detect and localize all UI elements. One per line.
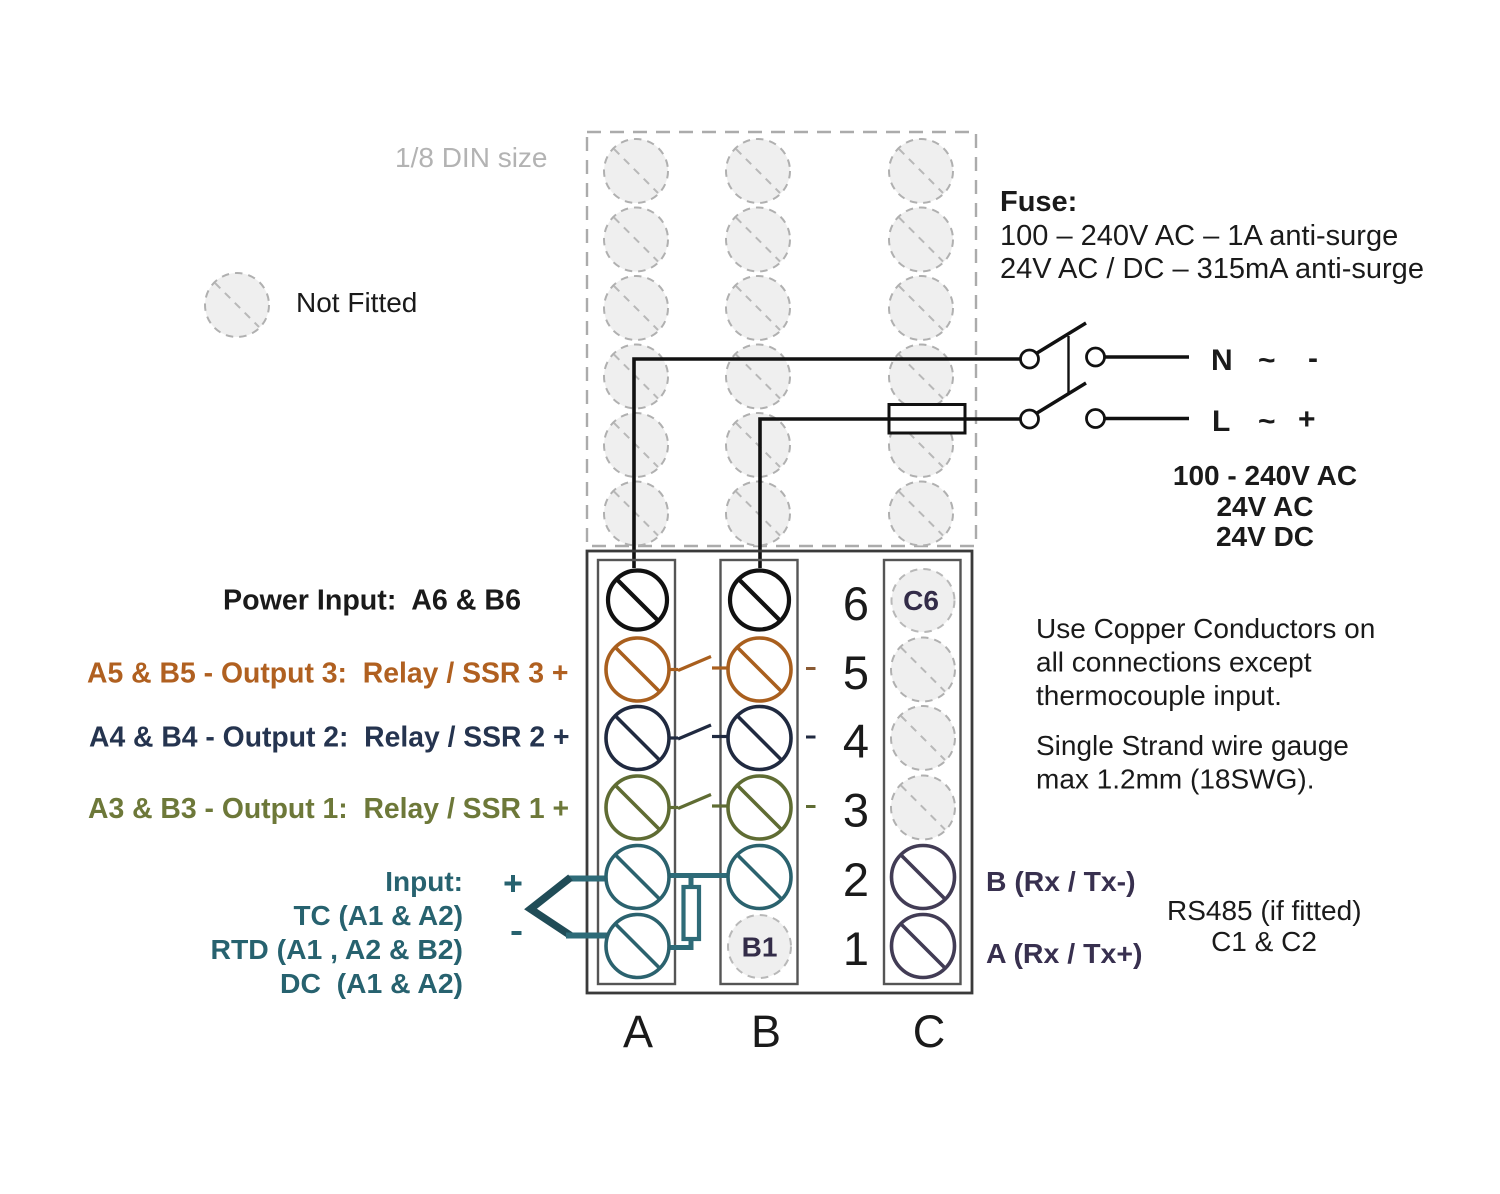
not fitted terminal col B r6 [726, 482, 790, 546]
svg-text:~: ~ [1258, 344, 1276, 377]
not fitted terminal col C r1 [889, 139, 953, 203]
not fitted terminal col B r2 [726, 208, 790, 272]
svg-text:100 – 240V AC – 1A anti-surge: 100 – 240V AC – 1A anti-surge [1000, 220, 1398, 252]
terminal A4 [606, 707, 669, 770]
terminal C3 not fitted [891, 776, 955, 840]
not fitted terminal col B r1 [726, 139, 790, 203]
fuse F1 body [889, 405, 965, 434]
svg-text:24V AC / DC – 315mA anti-surge: 24V AC / DC – 315mA anti-surge [1000, 253, 1424, 285]
terminal B1 not fitted [728, 915, 791, 978]
svg-text:A: A [623, 1006, 653, 1057]
terminal C5 not fitted [891, 638, 955, 702]
svg-text:1: 1 [843, 922, 869, 975]
svg-text:+: + [1298, 403, 1316, 436]
svg-text:max 1.2mm (18SWG).: max 1.2mm (18SWG). [1036, 764, 1314, 795]
RTD jumper down stub [689, 873, 694, 887]
column A strip [598, 560, 675, 984]
svg-text:C1 & C2: C1 & C2 [1211, 926, 1317, 957]
terminal B4 [728, 707, 791, 770]
svg-text:B1: B1 [742, 932, 778, 963]
svg-text:B: B [751, 1006, 781, 1057]
contact link output 1 [670, 795, 729, 809]
switch pole N right contact [1087, 348, 1105, 366]
svg-text:TC (A1 & A2): TC (A1 & A2) [294, 900, 464, 931]
not fitted terminal col A r3 [604, 276, 668, 340]
input minus polarity sign [512, 931, 522, 935]
not fitted terminal col A r2 [604, 208, 668, 272]
not fitted legend circle [205, 273, 269, 337]
thermocouple symbol [531, 878, 609, 936]
not fitted terminal col C r3 [889, 276, 953, 340]
svg-text:RTD (A1 , A2 & B2): RTD (A1 , A2 & B2) [211, 934, 464, 965]
contact link output 2 [670, 725, 729, 739]
terminal C1 [892, 915, 955, 978]
not fitted terminal col A r5 [604, 413, 668, 477]
input plus polarity sign [505, 875, 522, 892]
svg-text:Power Input: A6 & B6: Power Input: A6 & B6 [223, 585, 521, 617]
svg-text:100 - 240V AC: 100 - 240V AC [1173, 460, 1357, 491]
terminal block outline [587, 551, 972, 993]
terminal C4 not fitted [891, 706, 955, 770]
not fitted terminal col A r1 [604, 139, 668, 203]
terminal A1 [606, 915, 669, 978]
svg-text:RS485 (if fitted): RS485 (if fitted) [1167, 895, 1362, 926]
svg-text:Single Strand wire gauge: Single Strand wire gauge [1036, 730, 1349, 761]
terminal C2 [892, 846, 955, 909]
not fitted terminal col B r5 [726, 413, 790, 477]
svg-text:-: - [1308, 342, 1318, 375]
svg-text:C: C [913, 1006, 946, 1057]
terminal A3 [606, 776, 669, 839]
switch pole L right contact [1087, 410, 1105, 428]
svg-text:6: 6 [843, 577, 869, 630]
svg-text:A4 & B4 - Output 2: Relay / S: A4 & B4 - Output 2: Relay / SSR 2 + [89, 722, 570, 754]
svg-text:Use Copper Conductors on: Use Copper Conductors on [1036, 613, 1375, 644]
svg-text:L: L [1212, 405, 1230, 438]
DIN outline (dashed case) [587, 132, 976, 546]
minus mark row 5 [806, 667, 816, 670]
wire L tail [1105, 417, 1190, 420]
switch mechanical link [1067, 336, 1069, 394]
terminal B6 [730, 571, 789, 630]
svg-text:Input:: Input: [385, 866, 463, 897]
svg-text:N: N [1211, 344, 1233, 377]
terminal A2 [606, 846, 669, 909]
svg-text:B (Rx / Tx-): B (Rx / Tx-) [986, 866, 1136, 897]
RTD lower stub [689, 939, 694, 948]
svg-text:A3 & B3 - Output 1: Relay / S: A3 & B3 - Output 1: Relay / SSR 1 + [88, 793, 569, 825]
svg-text:4: 4 [843, 715, 869, 768]
svg-text:all connections except: all connections except [1036, 647, 1312, 678]
switch pole N left contact [1021, 350, 1039, 368]
svg-text:~: ~ [1258, 405, 1276, 438]
svg-text:A (Rx / Tx+): A (Rx / Tx+) [986, 938, 1143, 969]
terminal B2 [728, 846, 791, 909]
minus mark row 3 [806, 805, 816, 808]
terminal A6 [608, 571, 667, 630]
not fitted terminal col C r4 [889, 345, 953, 409]
terminal C6 not fitted [892, 569, 955, 632]
column C strip [884, 560, 961, 984]
switch pole L left contact [1021, 410, 1039, 428]
svg-text:A5 & B5 - Output 3: Relay / S: A5 & B5 - Output 3: Relay / SSR 3 + [87, 658, 569, 690]
RTD resistor [684, 887, 700, 939]
svg-text:Fuse:: Fuse: [1000, 186, 1077, 218]
terminal B5 [728, 638, 791, 701]
contact link output 3 [670, 657, 729, 671]
not fitted terminal col A r6 [604, 482, 668, 546]
terminal B3 [728, 776, 791, 839]
not fitted terminal col B r3 [726, 276, 790, 340]
not fitted terminal col C r5 [889, 413, 953, 477]
wire N tail [1105, 355, 1190, 358]
switch pole L lever [1037, 383, 1086, 413]
svg-text:5: 5 [843, 646, 869, 699]
switch pole N lever [1037, 323, 1086, 353]
svg-text:C6: C6 [903, 585, 939, 616]
input wire row 2 [670, 873, 728, 878]
not fitted terminal col A r4 [604, 345, 668, 409]
svg-text:1/8 DIN size: 1/8 DIN size [395, 142, 548, 173]
wire gauge note [1036, 730, 1349, 795]
svg-text:Not Fitted: Not Fitted [296, 287, 417, 318]
svg-text:thermocouple input.: thermocouple input. [1036, 680, 1282, 711]
wire N from A6 to switch [634, 359, 1020, 568]
svg-text:DC (A1 & A2): DC (A1 & A2) [280, 968, 463, 999]
not fitted terminal col C r2 [889, 208, 953, 272]
column B strip [721, 560, 798, 984]
not fitted terminal col C r6 [889, 482, 953, 546]
svg-text:24V DC: 24V DC [1216, 521, 1314, 552]
not fitted terminal col B r4 [726, 345, 790, 409]
wire L from B6 through fuse to switch [760, 419, 1021, 568]
svg-text:24V AC: 24V AC [1216, 491, 1313, 522]
svg-text:3: 3 [843, 784, 869, 837]
terminal A5 [606, 638, 669, 701]
RTD wire to A1 [668, 945, 694, 950]
minus mark row 4 [806, 736, 816, 739]
svg-text:2: 2 [843, 853, 869, 906]
copper conductors note [1036, 613, 1375, 711]
